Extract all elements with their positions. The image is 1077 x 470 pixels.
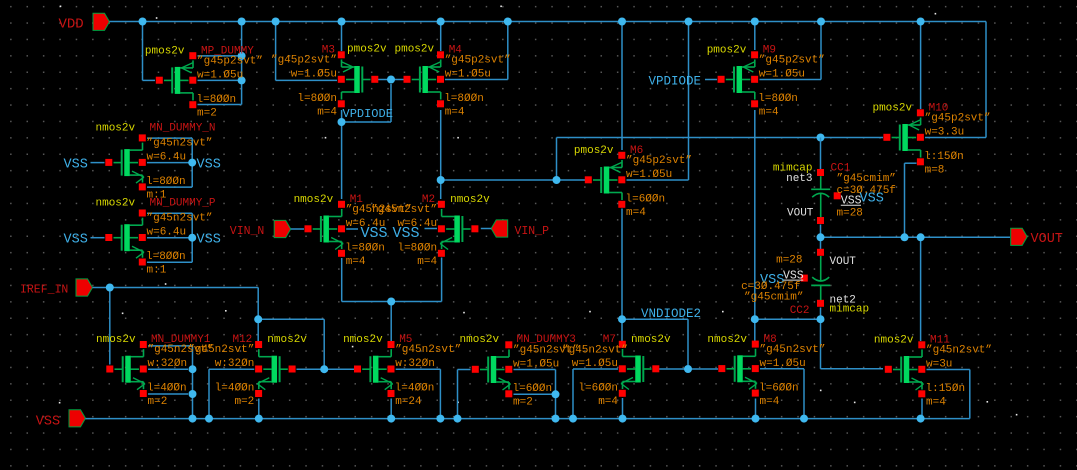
junction VNDIODE2 at M6 drain bbox=[618, 315, 626, 323]
junction VDD rail 2 bbox=[238, 18, 246, 26]
svg-text:l=4ØØn: l=4ØØn bbox=[147, 383, 187, 395]
wire MN_DUMMY1 ties bbox=[148, 346, 193, 419]
svg-text:w=6.4u: w=6.4u bbox=[147, 227, 187, 239]
svg-text:net3: net3 bbox=[786, 173, 812, 185]
wire net2 to M11 gate bbox=[821, 319, 884, 369]
wire tail node bbox=[342, 258, 442, 302]
svg-text:nmos2v: nmos2v bbox=[450, 194, 490, 206]
wire M2 bulk stub bbox=[425, 228, 438, 230]
junction VSS rail at M11 source bbox=[917, 415, 925, 423]
svg-text:VPDIODE: VPDIODE bbox=[648, 75, 701, 89]
svg-text:m=4: m=4 bbox=[417, 256, 437, 268]
wire VNDIODE2 jog bbox=[622, 319, 688, 365]
svg-text:”g45n2svt”: ”g45n2svt” bbox=[188, 344, 254, 356]
wire VPDIODE jog bbox=[342, 84, 392, 122]
nmos transistor MN_DUMMY_N bbox=[96, 123, 216, 202]
wire VIN_N to M1 gate bbox=[291, 228, 304, 230]
junction VDD rail 5 bbox=[437, 18, 445, 26]
wire M1 bulk stub bbox=[346, 228, 358, 230]
wire M9 source to VDD bbox=[754, 22, 756, 51]
junction VDD rail 7 bbox=[618, 18, 626, 26]
svg-text:w=1.Ø5u: w=1.Ø5u bbox=[760, 358, 806, 370]
junction VOUT at CC1 bbox=[817, 233, 825, 241]
wire net2 horizontal bbox=[755, 318, 821, 320]
svg-text:m=4: m=4 bbox=[317, 107, 337, 119]
svg-text:w=1.Ø5u: w=1.Ø5u bbox=[197, 69, 243, 81]
svg-text:VOUT: VOUT bbox=[1031, 232, 1063, 247]
junction VDD rail 9 bbox=[751, 18, 759, 26]
svg-text:MN_DUMMY_N: MN_DUMMY_N bbox=[150, 123, 216, 135]
svg-text:l=8ØØn: l=8ØØn bbox=[397, 243, 437, 255]
wire M12 bulk tie bbox=[209, 369, 254, 418]
junction net3 at CC1 bbox=[817, 134, 825, 142]
svg-text:w=6.4u: w=6.4u bbox=[397, 218, 437, 230]
svg-text:VPDIODE: VPDIODE bbox=[343, 107, 393, 121]
wire M12 M5 gate rail bbox=[297, 368, 356, 370]
wire MP_DUMMY gate tie to VDD bbox=[143, 22, 156, 81]
wire VIN_P to M2 gate bbox=[481, 228, 491, 230]
svg-text:VOUT: VOUT bbox=[830, 256, 857, 268]
wire M3 bulk tie to VDD bbox=[276, 22, 337, 81]
nmos transistor M11 bbox=[874, 335, 992, 409]
svg-text:nmos2v: nmos2v bbox=[874, 335, 914, 347]
svg-text:l=4ØØn: l=4ØØn bbox=[215, 383, 255, 395]
wire M10 drain to VOUT bbox=[905, 163, 917, 237]
svg-text:VDD: VDD bbox=[59, 16, 84, 32]
pmos transistor MP_DUMMY bbox=[145, 45, 263, 119]
nmos transistor MN_DUMMY3 bbox=[460, 334, 580, 409]
junction MP_DUMMY source bbox=[238, 52, 246, 60]
svg-text:”g45n2svt”: ”g45n2svt” bbox=[371, 204, 437, 216]
junction net2 at CC2 bbox=[817, 315, 825, 323]
svg-text:w=1.Ø5u: w=1.Ø5u bbox=[513, 359, 559, 371]
junction VSS rail at MN_DUMMY1 tie bbox=[189, 415, 197, 423]
wire net3 horizontal to M6 gate bbox=[441, 179, 586, 181]
wire M6 drain vertical bbox=[621, 209, 623, 342]
svg-text:l=8ØØn: l=8ØØn bbox=[197, 94, 237, 106]
wire M10 bulk tie to VDD bbox=[925, 22, 986, 138]
junction VDD rail 11 bbox=[917, 18, 925, 26]
svg-text:m=4: m=4 bbox=[445, 107, 465, 119]
wire CC2 bottom drop bbox=[820, 308, 822, 320]
svg-text:pmos2v: pmos2v bbox=[707, 45, 747, 57]
nmos transistor M8 bbox=[707, 334, 825, 408]
svg-text:w:32Øn: w:32Øn bbox=[395, 358, 435, 370]
svg-text:m=4: m=4 bbox=[598, 396, 618, 408]
svg-text:m=4: m=4 bbox=[626, 207, 646, 219]
svg-text:VSS: VSS bbox=[64, 158, 88, 173]
capacitor CC2 bbox=[801, 249, 830, 307]
wire M12 diode jog bbox=[258, 319, 324, 369]
svg-text:”g45cmim”: ”g45cmim” bbox=[837, 173, 896, 185]
wire M7 source bbox=[622, 398, 624, 419]
svg-text:w:32Øn: w:32Øn bbox=[148, 358, 188, 370]
svg-text:nmos2v: nmos2v bbox=[707, 334, 747, 346]
svg-text:m=4: m=4 bbox=[759, 107, 779, 119]
svg-text:l=8ØØn: l=8ØØn bbox=[444, 93, 484, 105]
svg-text:w=1.Ø5u: w=1.Ø5u bbox=[572, 358, 618, 370]
wire M5 bulk tie bbox=[396, 369, 441, 418]
svg-text:VNDIODE2: VNDIODE2 bbox=[641, 307, 701, 321]
wire M4 drain to M2 drain bbox=[440, 110, 442, 199]
wire net3 to M10 gate bbox=[821, 137, 884, 139]
wire M6 source to VDD bbox=[621, 22, 623, 151]
wire M9 drain vertical bbox=[754, 110, 756, 341]
wire M9 gate stub bbox=[705, 79, 717, 81]
svg-text:m=2: m=2 bbox=[197, 107, 217, 119]
junction MN_DUMMY1 source bbox=[189, 390, 197, 398]
wire M7 M8 gate rail bbox=[659, 368, 718, 370]
svg-text:l=8ØØn: l=8ØØn bbox=[146, 176, 186, 188]
junction VSS rail at MN_DUMMY3 tie bbox=[552, 415, 560, 423]
junction VOUT at M10 drain bbox=[901, 233, 909, 241]
svg-text:m=4: m=4 bbox=[760, 396, 780, 408]
junction VDD rail 3 bbox=[272, 18, 280, 26]
capacitor CC1 bbox=[811, 169, 841, 224]
wire M11 drain to VOUT bbox=[920, 237, 922, 341]
junction MN_DUMMY_P bulk tie bbox=[188, 234, 196, 242]
svg-text:”g45n2svt”: ”g45n2svt” bbox=[395, 344, 461, 356]
junction VPDIODE at M3 drain bbox=[338, 118, 346, 126]
svg-text:l=8ØØn: l=8ØØn bbox=[758, 93, 798, 105]
svg-text:VOUT: VOUT bbox=[787, 208, 814, 220]
junction VSS rail at M8 bulk tie bbox=[800, 415, 808, 423]
svg-text:m=4: m=4 bbox=[926, 397, 946, 409]
svg-text:”g45p2svt”: ”g45p2svt” bbox=[925, 113, 991, 125]
pin VDD bbox=[59, 13, 110, 32]
junction MN_DUMMY1 bulk bbox=[189, 365, 197, 373]
junction MN_DUMMY_N bulk tie bbox=[188, 159, 196, 167]
junction VDD rail 1 bbox=[139, 18, 147, 26]
wire M8 source bbox=[755, 399, 757, 419]
svg-text:”g45p2svt”: ”g45p2svt” bbox=[271, 55, 337, 67]
svg-text:l=6ØØn: l=6ØØn bbox=[759, 382, 799, 394]
svg-text:pmos2v: pmos2v bbox=[574, 145, 614, 157]
junction VSS rail at M8 source bbox=[752, 415, 760, 423]
wire CC1 bottom to VOUT rail bbox=[820, 225, 822, 250]
svg-text:nmos2v: nmos2v bbox=[267, 334, 307, 346]
junction MN_DUMMY3 source tie bbox=[552, 390, 560, 398]
wire M5 drain to tail bbox=[390, 302, 392, 342]
wire VOUT rail bbox=[821, 236, 1011, 238]
junction VSS rail at MN_DUMMY3 gate tie bbox=[454, 415, 462, 423]
wire VSS rail bbox=[86, 418, 970, 420]
svg-text:VSS: VSS bbox=[36, 415, 60, 430]
wire M11 bulk tie bbox=[927, 370, 970, 419]
nmos transistor M5 bbox=[343, 334, 461, 408]
junction M12 M5 gates bbox=[320, 365, 328, 373]
svg-text:m=28: m=28 bbox=[837, 208, 863, 220]
pmos transistor M3 bbox=[271, 44, 387, 119]
wire M4 bulk tie to VDD bbox=[445, 22, 508, 80]
junction VSS rail at M12 bulk tie bbox=[205, 415, 213, 423]
wire M5 source bbox=[390, 399, 392, 419]
svg-text:VSS: VSS bbox=[860, 192, 884, 207]
svg-text:w=3.3u: w=3.3u bbox=[925, 127, 965, 139]
svg-text:w=1.Ø5u: w=1.Ø5u bbox=[759, 69, 805, 81]
svg-text:VIN_N: VIN_N bbox=[230, 225, 265, 238]
wire VDD rail bbox=[110, 21, 987, 23]
pin VIN_N bbox=[230, 220, 291, 238]
pmos transistor M6 bbox=[574, 145, 692, 219]
svg-text:nmos2v: nmos2v bbox=[96, 334, 136, 346]
junction net3 jog bbox=[553, 176, 561, 184]
svg-text:”g45p2svt”: ”g45p2svt” bbox=[445, 55, 511, 67]
svg-text:VSS: VSS bbox=[197, 158, 221, 173]
svg-text:m=2: m=2 bbox=[234, 396, 254, 408]
junction MP_DUMMY bulk bbox=[238, 76, 246, 84]
pmos transistor M4 bbox=[395, 44, 511, 119]
svg-text:nmos2v: nmos2v bbox=[631, 334, 671, 346]
wire MN_DUMMY_P gate stub bbox=[91, 237, 105, 239]
svg-text:”g45p2svt”: ”g45p2svt” bbox=[759, 55, 825, 67]
svg-text:nmos2v: nmos2v bbox=[96, 198, 136, 210]
svg-text:CC2: CC2 bbox=[790, 305, 810, 317]
svg-text:w=1.Ø5u: w=1.Ø5u bbox=[626, 169, 672, 181]
junction M3 M4 gates bbox=[387, 76, 395, 84]
wire MN_DUMMY_N ties bbox=[147, 138, 192, 187]
svg-text:pmos2v: pmos2v bbox=[872, 103, 912, 115]
junction VSS rail at M5 bulk tie bbox=[436, 415, 444, 423]
junction VDD rail 4 bbox=[338, 18, 346, 26]
svg-text:pmos2v: pmos2v bbox=[395, 44, 435, 56]
wire MN_DUMMY_N gate stub bbox=[91, 162, 105, 164]
wire MP_DUMMY source/bulk/drain tie to VDD bbox=[198, 22, 242, 105]
nmos transistor M2 bbox=[371, 194, 490, 268]
svg-text:m=24: m=24 bbox=[395, 396, 422, 408]
wire M12 source bbox=[258, 399, 260, 419]
svg-text:w=1.Ø5u: w=1.Ø5u bbox=[291, 69, 337, 81]
wire MN_DUMMY3 gate tie bbox=[458, 370, 471, 419]
svg-text:m=2: m=2 bbox=[148, 396, 168, 408]
svg-text:nmos2v: nmos2v bbox=[96, 123, 136, 135]
svg-text:”g45p2svt”: ”g45p2svt” bbox=[626, 155, 692, 167]
pin VIN_P bbox=[491, 220, 549, 238]
pin VSS bbox=[36, 410, 86, 430]
wire M8 bulk tie bbox=[760, 369, 804, 419]
wire MN_DUMMY_P ties bbox=[147, 213, 192, 262]
nmos transistor M7 bbox=[562, 334, 671, 408]
svg-text:VSS: VSS bbox=[64, 233, 88, 248]
label CC2 bulk VSS white bbox=[783, 269, 804, 282]
svg-text:l=6ØØn: l=6ØØn bbox=[626, 194, 666, 206]
svg-text:mimcap: mimcap bbox=[830, 303, 870, 315]
svg-text:nmos2v: nmos2v bbox=[294, 194, 334, 206]
svg-text:nmos2v: nmos2v bbox=[460, 334, 500, 346]
svg-text:”g45n2svt”: ”g45n2svt” bbox=[147, 213, 213, 225]
svg-text:l=6ØØn: l=6ØØn bbox=[578, 383, 618, 395]
svg-text:l=4ØØn: l=4ØØn bbox=[395, 383, 435, 395]
pmos transistor M9 bbox=[707, 45, 825, 119]
nmos transistor M1 bbox=[294, 194, 412, 268]
wire CC1 top terminal drop bbox=[820, 138, 822, 170]
wire net3 jog up bbox=[557, 138, 821, 181]
junction VSS rail at M7 bulk tie bbox=[569, 415, 577, 423]
wire M4 source to VDD bbox=[440, 22, 442, 52]
junction IREF at MN_DUMMY1 gate bbox=[106, 284, 114, 292]
wire IREF to M12 drain bbox=[93, 288, 259, 342]
wire M3 source to VDD bbox=[341, 22, 343, 52]
svg-text:VSS: VSS bbox=[197, 233, 221, 248]
wire MN_DUMMY3 bulk source ties bbox=[514, 370, 556, 419]
junction net3 at M2 drain bbox=[437, 176, 445, 184]
pin VOUT bbox=[1011, 228, 1063, 247]
svg-text:w=3u: w=3u bbox=[926, 359, 952, 371]
svg-text:”g45cmim”: ”g45cmim” bbox=[744, 292, 803, 304]
junction M7 M8 gates bbox=[684, 365, 692, 373]
svg-text:pmos2v: pmos2v bbox=[145, 45, 185, 57]
svg-text:l=8ØØn: l=8ØØn bbox=[297, 93, 337, 105]
junction VSS rail at M12 source bbox=[255, 415, 263, 423]
svg-text:”g45n2svt”: ”g45n2svt” bbox=[926, 345, 992, 357]
pin IREF_IN bbox=[20, 279, 93, 297]
wire M3 M4 gate rail bbox=[377, 79, 404, 81]
svg-text:nmos2v: nmos2v bbox=[343, 334, 383, 346]
svg-text:MN_DUMMY_P: MN_DUMMY_P bbox=[150, 198, 216, 210]
svg-text:VIN_P: VIN_P bbox=[515, 225, 550, 238]
svg-text:w=6.4u: w=6.4u bbox=[346, 218, 386, 230]
pmos transistor M10 bbox=[872, 103, 990, 177]
junction M12 drain bbox=[254, 315, 262, 323]
svg-text:”g45n2svt”: ”g45n2svt” bbox=[562, 345, 628, 357]
nmos transistor MN_DUMMY1 bbox=[96, 334, 214, 408]
junction VDD rail 10 bbox=[817, 18, 825, 26]
label CC1 bulk VSS white bbox=[841, 195, 862, 208]
wire M3 drain to M1 drain bbox=[341, 110, 343, 199]
wire MN_DUMMY1 gate drop bbox=[109, 288, 111, 365]
wire M11 source bbox=[921, 399, 923, 419]
wire M9 bulk tie to VDD bbox=[760, 22, 822, 80]
junction VOUT at M11 drain bbox=[917, 233, 925, 241]
junction VSS rail at M7 source bbox=[619, 415, 627, 423]
nmos transistor MN_DUMMY_P bbox=[96, 198, 216, 277]
svg-text:”g45n2svt”: ”g45n2svt” bbox=[147, 138, 213, 150]
svg-text:w:32Øn: w:32Øn bbox=[215, 358, 255, 370]
svg-text:w=1.Ø5u: w=1.Ø5u bbox=[445, 69, 491, 81]
wire M6 bulk tie to VDD bbox=[627, 22, 689, 181]
svg-text:pmos2v: pmos2v bbox=[347, 44, 387, 56]
svg-text:l=6ØØn: l=6ØØn bbox=[513, 383, 553, 395]
junction VDD rail 6 bbox=[504, 18, 512, 26]
svg-text:m=8: m=8 bbox=[925, 165, 945, 177]
svg-text:m=4: m=4 bbox=[346, 256, 366, 268]
nmos transistor M12 bbox=[188, 334, 307, 408]
svg-text:”g45p2svt”: ”g45p2svt” bbox=[197, 55, 263, 67]
svg-text:m=28: m=28 bbox=[776, 255, 802, 267]
svg-text:IREF_IN: IREF_IN bbox=[20, 284, 68, 297]
wire M7 bulk tie bbox=[573, 369, 618, 419]
junction tail node bbox=[387, 298, 395, 306]
svg-text:m:1: m:1 bbox=[147, 265, 167, 277]
svg-text:”g45n2svt”: ”g45n2svt” bbox=[760, 344, 826, 356]
junction net2 at M9 drain bbox=[751, 315, 759, 323]
wire M10 source to VDD bbox=[920, 22, 922, 110]
svg-text:w=6.4u: w=6.4u bbox=[147, 152, 187, 164]
junction VDD rail 8 bbox=[685, 18, 693, 26]
svg-text:l=8ØØn: l=8ØØn bbox=[345, 243, 385, 255]
junction VSS rail at M5 source bbox=[387, 415, 395, 423]
svg-text:l:15Øn: l:15Øn bbox=[924, 151, 964, 163]
svg-text:l:15Øn: l:15Øn bbox=[926, 383, 966, 395]
svg-text:m=2: m=2 bbox=[513, 397, 533, 409]
svg-text:l=8ØØn: l=8ØØn bbox=[146, 251, 186, 263]
